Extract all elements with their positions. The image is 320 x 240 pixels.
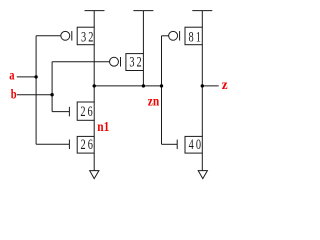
wire z output (202, 85, 218, 87)
wire b input (17, 94, 52, 96)
svg-text:2: 2 (137, 54, 142, 70)
svg-text:2: 2 (88, 29, 93, 45)
ground symbol left (90, 171, 99, 179)
junction node z (201, 84, 204, 87)
wire a input (17, 76, 36, 78)
wire a to M1 gate (36, 35, 61, 37)
power VDD bar 3 (192, 11, 212, 28)
svg-text:2: 2 (81, 136, 86, 152)
wire a to M5 gate (36, 143, 69, 145)
wire M1 drain to zn rail (93, 45, 95, 86)
junction zn at M2 (142, 84, 145, 87)
wire M2 drain to zn rail (142, 71, 144, 86)
svg-text:1: 1 (196, 29, 201, 45)
wire b to M4 gate (52, 111, 69, 113)
svg-text:6: 6 (88, 136, 93, 152)
transistor M1 pmos 32 (gate a) (61, 27, 94, 45)
junction node a (34, 75, 37, 78)
wire zn to M3 gate (162, 35, 169, 37)
transistor M5 nmos 26 (gate a) (69, 136, 94, 153)
junction zn at M1/M4 (93, 84, 96, 87)
svg-text:4: 4 (189, 136, 195, 152)
transistor M6 nmos 40 (gate zn) (177, 136, 202, 153)
power VDD bar 1 (85, 11, 105, 28)
svg-text:6: 6 (88, 103, 93, 119)
wire M6 source to ground (201, 153, 203, 171)
junction zn at branch (160, 84, 163, 87)
transistor M4 nmos 26 (gate b) (69, 102, 94, 120)
svg-text:3: 3 (129, 54, 134, 70)
wire zn branch vertical (161, 36, 163, 145)
svg-text:n1: n1 (97, 119, 109, 134)
svg-text:a: a (9, 67, 14, 82)
svg-text:3: 3 (81, 29, 86, 45)
svg-text:b: b (11, 86, 17, 101)
ground symbol right (198, 171, 207, 179)
wire M5 source to ground (93, 153, 95, 171)
junction node b (50, 93, 53, 96)
wire net a vertical (35, 36, 37, 145)
wire zn rail (94, 85, 161, 87)
wire z to M6 drain (201, 86, 203, 136)
svg-text:2: 2 (80, 103, 85, 119)
svg-text:0: 0 (196, 136, 201, 152)
wire M3 drain to z (201, 45, 203, 86)
svg-text:8: 8 (189, 29, 194, 45)
svg-text:zn: zn (148, 94, 160, 109)
wire b to M2 gate (52, 61, 109, 63)
wire node n1 (93, 120, 95, 136)
wire zn rail to M4 drain (93, 86, 95, 102)
svg-text:z: z (222, 77, 228, 92)
wire net b vertical (51, 62, 53, 112)
power VDD bar 2 (133, 11, 153, 54)
wire zn to M6 gate (162, 143, 178, 145)
transistor M2 pmos 32 (gate b) (110, 54, 144, 71)
transistor M3 pmos 81 (gate zn) (169, 27, 203, 45)
